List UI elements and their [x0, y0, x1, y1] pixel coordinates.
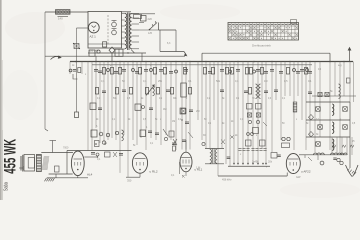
svg-text:0,1: 0,1 — [235, 80, 239, 83]
svg-text:4M: 4M — [163, 108, 166, 111]
svg-text:0,1: 0,1 — [188, 80, 192, 83]
svg-text:0,5: 0,5 — [284, 80, 288, 83]
svg-text:1 M: 1 M — [196, 166, 200, 170]
svg-text:AL4: AL4 — [87, 173, 93, 177]
svg-text:455 WK: 455 WK — [0, 139, 19, 174]
svg-text:u RL2: u RL2 — [150, 170, 158, 174]
svg-text:456 kHz: 456 kHz — [222, 178, 232, 182]
svg-text:220: 220 — [148, 17, 153, 21]
svg-text:Drehkoantrieb: Drehkoantrieb — [252, 44, 271, 48]
svg-text:2x456: 2x456 — [252, 161, 259, 164]
svg-text:1M: 1M — [172, 121, 175, 123]
svg-text:GW: GW — [296, 175, 301, 179]
svg-text:1M: 1M — [264, 80, 267, 83]
svg-text:140: 140 — [58, 17, 63, 21]
svg-text:7000: 7000 — [63, 147, 69, 150]
svg-text:0,1: 0,1 — [308, 80, 312, 83]
svg-text:2M: 2M — [196, 110, 199, 113]
svg-text:0,1: 0,1 — [143, 80, 147, 83]
svg-text:350: 350 — [127, 179, 132, 183]
svg-text:AZ 1: AZ 1 — [90, 35, 97, 39]
svg-text:Saba: Saba — [3, 182, 10, 191]
svg-text:0,1: 0,1 — [101, 80, 105, 83]
svg-text:u AF22: u AF22 — [301, 170, 311, 174]
svg-text:125: 125 — [148, 32, 153, 35]
